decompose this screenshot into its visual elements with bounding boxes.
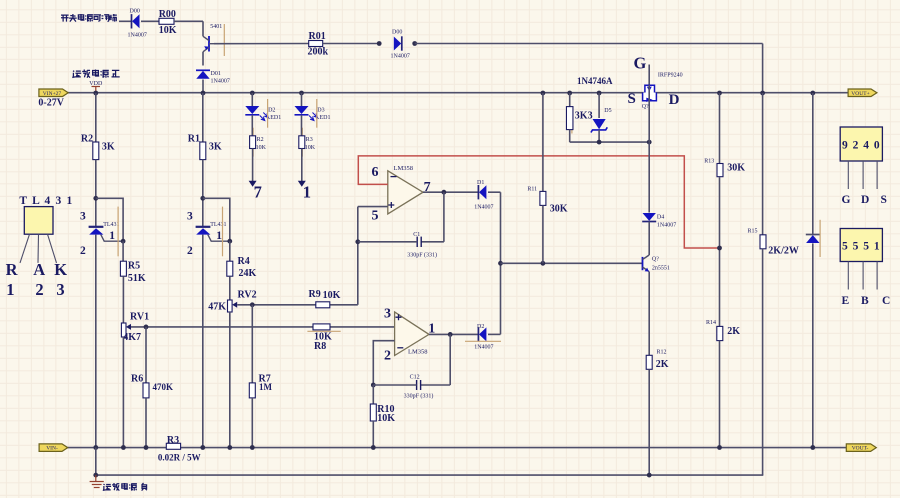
svg-text:RV2: RV2 <box>238 290 257 301</box>
junction <box>200 196 205 201</box>
svg-text:R12: R12 <box>657 349 667 355</box>
svg-text:TL431: TL431 <box>103 222 119 228</box>
svg-text:R2: R2 <box>81 134 93 145</box>
transistor Q 5401 (2N5401 PNP) <box>203 36 214 52</box>
wire artifact <box>307 330 340 332</box>
op-amp U1A LM358 <box>395 312 429 356</box>
svg-text:2: 2 <box>187 245 193 257</box>
wire <box>812 243 814 447</box>
wire RV1 wiper to op-amp <box>131 326 395 328</box>
junction <box>371 445 376 450</box>
junction <box>717 91 722 96</box>
junction <box>498 261 503 266</box>
svg-text:2K: 2K <box>727 326 740 337</box>
junction <box>810 91 815 96</box>
svg-text:LM358: LM358 <box>408 348 428 355</box>
wire <box>145 327 147 383</box>
svg-text:7: 7 <box>254 183 262 202</box>
svg-text:1N4746A: 1N4746A <box>577 76 613 86</box>
wire pin5 <box>358 206 388 208</box>
wire <box>301 93 303 106</box>
svg-text:VIN-: VIN- <box>46 446 58 452</box>
svg-text:1N4007: 1N4007 <box>211 79 230 85</box>
text 正 <box>112 70 120 77</box>
svg-text:200k: 200k <box>308 47 329 58</box>
svg-text:D: D <box>669 92 680 108</box>
op-amp U1B LM358 <box>388 171 423 214</box>
wire <box>251 398 253 448</box>
wire <box>95 160 97 228</box>
svg-text:2K: 2K <box>656 359 669 370</box>
svg-text:G: G <box>634 54 647 73</box>
svg-text:D3: D3 <box>317 108 324 114</box>
wire gate lower stub <box>648 85 650 142</box>
capacitor C1 330pF <box>417 237 421 247</box>
net arrow to pin 7 <box>249 181 257 187</box>
junction R7 tap <box>250 302 255 307</box>
wire <box>762 93 764 235</box>
svg-text:D5: D5 <box>604 108 611 114</box>
wire <box>373 384 416 386</box>
svg-text:1N4007: 1N4007 <box>474 204 493 210</box>
svg-text:R: R <box>6 260 19 279</box>
junction <box>377 41 382 46</box>
svg-text:10K: 10K <box>159 25 177 36</box>
svg-text:D00: D00 <box>130 8 140 14</box>
svg-text:C: C <box>882 295 890 307</box>
svg-text:10K: 10K <box>377 413 395 424</box>
junction R11 bottom <box>541 261 546 266</box>
wire <box>762 44 764 94</box>
junction <box>760 91 765 96</box>
resistor R3 0.02R <box>166 443 180 449</box>
wire <box>95 93 97 142</box>
resistor R2 3K <box>93 142 99 160</box>
wire <box>421 384 451 386</box>
svg-text:1N4007: 1N4007 <box>657 222 676 228</box>
svg-text:R11: R11 <box>527 187 537 193</box>
wire artifact <box>571 107 573 134</box>
svg-text:2K/2W: 2K/2W <box>768 245 799 256</box>
wire <box>202 93 204 142</box>
resistor R7 1M <box>249 383 255 398</box>
junction <box>371 383 376 388</box>
junction <box>597 91 602 96</box>
junction <box>647 140 652 145</box>
wire <box>202 52 204 66</box>
junction <box>597 140 602 145</box>
resistor R6 470K <box>143 383 149 398</box>
wire <box>122 241 124 261</box>
svg-text:C1: C1 <box>413 232 420 238</box>
transistor Q2 2n5551 (NPN) <box>643 255 650 272</box>
wire gate stub <box>648 65 650 86</box>
wire pin2 <box>373 341 394 385</box>
svg-text:470K: 470K <box>153 382 174 392</box>
svg-text:Q?: Q? <box>642 104 649 110</box>
diode D01 1N4007 <box>196 70 210 79</box>
svg-text:VOUT+: VOUT+ <box>851 91 869 97</box>
junction <box>93 473 98 478</box>
wire <box>202 235 204 448</box>
wire <box>648 142 650 212</box>
svg-text:E: E <box>842 295 850 307</box>
svg-text:Q?: Q? <box>652 256 659 262</box>
wire artifact <box>222 207 224 257</box>
junction <box>810 445 815 450</box>
svg-text:R5: R5 <box>128 260 140 271</box>
wire <box>251 93 253 106</box>
svg-text:R3: R3 <box>167 435 179 446</box>
diode D4 1N4007 <box>642 213 656 222</box>
svg-text:30K: 30K <box>550 204 568 215</box>
svg-text:10K: 10K <box>305 145 316 151</box>
shunt ref U TL431 #2 <box>196 227 230 241</box>
resistor R1 3K <box>200 142 206 160</box>
svg-text:B: B <box>861 295 869 307</box>
svg-text:5401: 5401 <box>210 24 222 30</box>
svg-text:47K: 47K <box>208 301 226 312</box>
wire base net <box>214 43 309 45</box>
wire <box>762 249 764 475</box>
junction <box>412 41 417 46</box>
wire <box>301 115 303 136</box>
text 开关电源可调端 <box>61 15 69 21</box>
wire <box>372 421 374 448</box>
junction <box>250 445 255 450</box>
zener D5 1N4746A <box>591 119 607 133</box>
svg-text:R15: R15 <box>748 229 758 235</box>
wire <box>648 222 650 256</box>
wire <box>719 177 721 326</box>
wire <box>122 337 124 448</box>
wire <box>648 369 650 475</box>
resistor R5 51K <box>120 261 126 276</box>
resistor R12 2K <box>646 355 652 369</box>
resistor R9 10K <box>316 302 330 308</box>
svg-text:1: 1 <box>216 230 222 242</box>
potentiometer RV1 4K7 <box>121 323 126 337</box>
svg-text:R8: R8 <box>314 341 326 352</box>
wire <box>488 191 501 193</box>
svg-text:3: 3 <box>56 280 64 299</box>
svg-text:R3: R3 <box>306 137 313 143</box>
legend 2N5551 pinout <box>840 229 882 262</box>
junction red net tap <box>717 246 722 251</box>
wire <box>141 20 159 22</box>
svg-text:R14: R14 <box>706 320 716 326</box>
svg-text:R1: R1 <box>188 134 200 145</box>
wire <box>812 93 814 235</box>
wire <box>202 80 204 94</box>
wire <box>202 21 204 36</box>
wire <box>301 149 303 182</box>
junction <box>227 445 232 450</box>
svg-text:R4: R4 <box>238 256 250 267</box>
wire <box>122 276 124 323</box>
wire <box>251 305 253 383</box>
junction R6 tap <box>144 325 149 330</box>
svg-text:S: S <box>881 194 887 206</box>
wire <box>449 334 451 385</box>
junction <box>200 445 205 450</box>
svg-text:3K3: 3K3 <box>575 110 593 121</box>
junction <box>299 91 304 96</box>
diode D6 <box>806 235 820 244</box>
wire <box>145 398 147 448</box>
svg-text:IRFP9240: IRFP9240 <box>658 73 683 79</box>
svg-text:RV1: RV1 <box>130 311 149 322</box>
legend IRFP9240 pinout <box>840 127 882 161</box>
svg-text:D01: D01 <box>211 71 221 77</box>
svg-text:30K: 30K <box>727 163 745 174</box>
svg-text:R9: R9 <box>309 289 321 300</box>
wire artifact <box>117 207 119 257</box>
svg-text:D2: D2 <box>477 324 484 330</box>
wire artifact <box>267 99 269 128</box>
svg-text:R01: R01 <box>309 31 326 42</box>
svg-text:G: G <box>842 194 851 206</box>
wire red net <box>358 156 718 248</box>
junction <box>448 332 453 337</box>
wire artifact <box>819 220 821 257</box>
svg-text:330pF (331): 330pF (331) <box>404 393 434 400</box>
junction <box>541 91 546 96</box>
wire <box>415 43 763 45</box>
diode D00 1N4007 (second) <box>394 36 402 50</box>
svg-text:51K: 51K <box>128 273 146 284</box>
wire <box>229 241 231 261</box>
svg-text:VIN+27: VIN+27 <box>43 91 62 97</box>
wire <box>598 130 600 142</box>
junction <box>121 239 126 244</box>
junction <box>567 91 572 96</box>
wire <box>488 333 501 335</box>
junction VDD/R2 <box>93 91 98 96</box>
junction <box>121 445 126 450</box>
wire artifact <box>301 128 303 157</box>
port VIN+ <box>39 89 68 97</box>
wire ground return <box>96 474 763 476</box>
svg-text:1: 1 <box>303 183 311 202</box>
wire TL431 cathode loop <box>96 198 123 241</box>
junction node D01/R1 <box>201 91 206 96</box>
port VOUT+ <box>848 89 877 97</box>
wire <box>251 115 253 136</box>
resistor R4 24K <box>227 261 233 276</box>
svg-text:3K: 3K <box>209 142 222 153</box>
wire <box>95 235 97 448</box>
wire gate net <box>570 141 650 143</box>
wire VIN- rail (bottom) <box>67 447 846 449</box>
svg-text:TL431: TL431 <box>210 222 226 228</box>
power symbol VDD <box>89 81 103 93</box>
wire pin5 to RV2 wiper <box>357 207 359 305</box>
wire pin7 out <box>423 191 478 193</box>
svg-text:2: 2 <box>80 245 86 257</box>
svg-text:5: 5 <box>372 209 379 224</box>
resistor R15 2K/2W <box>760 235 766 249</box>
svg-text:9 2 4 0: 9 2 4 0 <box>842 140 881 152</box>
svg-text:D: D <box>861 194 869 206</box>
wire artifact <box>316 99 318 128</box>
resistor R00 10K <box>159 18 174 24</box>
svg-text:VOUT-: VOUT- <box>852 446 869 452</box>
svg-text:D00: D00 <box>392 30 402 36</box>
LED D3 LED1 <box>295 106 318 121</box>
svg-text:LED1: LED1 <box>316 115 331 121</box>
junction <box>93 445 98 450</box>
svg-text:D2: D2 <box>268 108 275 114</box>
svg-text:2n5551: 2n5551 <box>652 265 670 271</box>
wire <box>372 385 374 404</box>
LED D2 LED1 <box>245 106 268 121</box>
resistor R3 10K <box>299 136 305 149</box>
wire diode OR node <box>500 192 502 334</box>
junction on ground line <box>647 473 652 478</box>
wire <box>202 160 204 228</box>
text 负 <box>142 483 147 491</box>
svg-text:10K: 10K <box>256 145 267 151</box>
wire artifact <box>465 340 501 342</box>
svg-text:1M: 1M <box>259 382 273 392</box>
wire <box>229 276 231 300</box>
svg-text:1: 1 <box>109 230 115 242</box>
wire <box>119 20 132 22</box>
svg-text:4K7: 4K7 <box>123 332 141 343</box>
svg-text:R2: R2 <box>257 137 264 143</box>
junction <box>442 190 447 195</box>
svg-text:10K: 10K <box>323 290 341 301</box>
text 运放电源 <box>104 484 112 490</box>
wire <box>95 448 97 476</box>
resistor R10 10K <box>370 404 376 421</box>
wire <box>598 93 600 118</box>
svg-text:C12: C12 <box>410 375 420 381</box>
wire <box>252 149 254 182</box>
capacitor C12 330pF <box>417 380 421 390</box>
wire <box>358 241 417 243</box>
junction <box>717 445 722 450</box>
svg-text:2: 2 <box>384 349 391 364</box>
wire artifact <box>252 128 254 157</box>
svg-text:D1: D1 <box>477 180 484 186</box>
svg-text:S: S <box>628 91 636 107</box>
svg-text:0.02R / 5W: 0.02R / 5W <box>158 452 201 462</box>
junction <box>227 239 232 244</box>
wire <box>323 43 380 45</box>
diode D00 1N4007 <box>132 14 140 28</box>
svg-text:LM358: LM358 <box>394 165 414 172</box>
wire <box>542 93 544 191</box>
net arrow to pin 1 <box>298 181 306 187</box>
svg-text:0-27V: 0-27V <box>38 97 64 108</box>
svg-text:3: 3 <box>187 211 193 223</box>
resistor R8 10K <box>313 324 330 330</box>
svg-text:1N4007: 1N4007 <box>391 53 410 59</box>
wire <box>719 341 721 448</box>
resistor R14 2K <box>717 326 723 340</box>
svg-text:R13: R13 <box>704 159 714 165</box>
potentiometer RV2 47K <box>228 300 233 312</box>
diode D2 1N4007 <box>478 327 486 341</box>
junction <box>250 91 255 96</box>
MOSFET Q? IRFP9240 <box>643 85 657 102</box>
wire <box>229 312 231 448</box>
junction <box>144 445 149 450</box>
junction C1 tap <box>355 239 360 244</box>
junction <box>93 196 98 201</box>
port VOUT- <box>846 444 876 452</box>
resistor R13 30K <box>717 164 723 177</box>
svg-text:A: A <box>33 260 45 279</box>
svg-text:3K: 3K <box>102 142 115 153</box>
svg-text:330pF (331): 330pF (331) <box>407 251 437 258</box>
resistor R01 200k <box>309 41 323 47</box>
wire TL431 cathode loop <box>203 198 230 241</box>
text 运放电源 <box>73 71 81 78</box>
wire <box>174 20 203 22</box>
wire to Q2 base <box>501 262 643 264</box>
diode D1 1N4007 <box>478 185 486 199</box>
resistor R11 30K <box>540 191 546 205</box>
svg-text:LED1: LED1 <box>267 115 282 121</box>
svg-text:1N4007: 1N4007 <box>128 33 147 39</box>
svg-text:R6: R6 <box>131 374 143 385</box>
wire <box>443 192 445 242</box>
wire <box>569 93 571 107</box>
svg-text:2: 2 <box>35 280 43 299</box>
svg-text:K: K <box>54 260 67 279</box>
wire pin1 out <box>429 333 478 335</box>
wire <box>569 130 571 143</box>
svg-text:1N4007: 1N4007 <box>474 345 493 351</box>
ground symbol <box>90 475 104 487</box>
resistor R2 10K <box>250 136 256 149</box>
svg-text:D4: D4 <box>657 214 664 220</box>
wire RV2 wiper <box>237 304 358 306</box>
svg-text:3: 3 <box>80 211 86 223</box>
wire <box>648 272 650 356</box>
resistor R 3K3 <box>566 107 573 130</box>
svg-text:3: 3 <box>384 307 391 322</box>
wire <box>542 205 544 263</box>
svg-text:R00: R00 <box>159 9 176 20</box>
wire artifact <box>223 24 225 56</box>
wire VIN+ rail (top) <box>68 92 849 94</box>
port VIN- <box>39 444 68 452</box>
svg-text:5 5 5 1: 5 5 5 1 <box>842 241 881 253</box>
svg-text:T L 4 3 1: T L 4 3 1 <box>19 195 73 207</box>
wire <box>421 241 444 243</box>
svg-text:24K: 24K <box>239 268 257 279</box>
svg-text:6: 6 <box>372 165 379 180</box>
svg-text:1: 1 <box>6 280 14 299</box>
shunt ref U TL431 #1 <box>89 227 124 241</box>
wire <box>719 93 721 164</box>
